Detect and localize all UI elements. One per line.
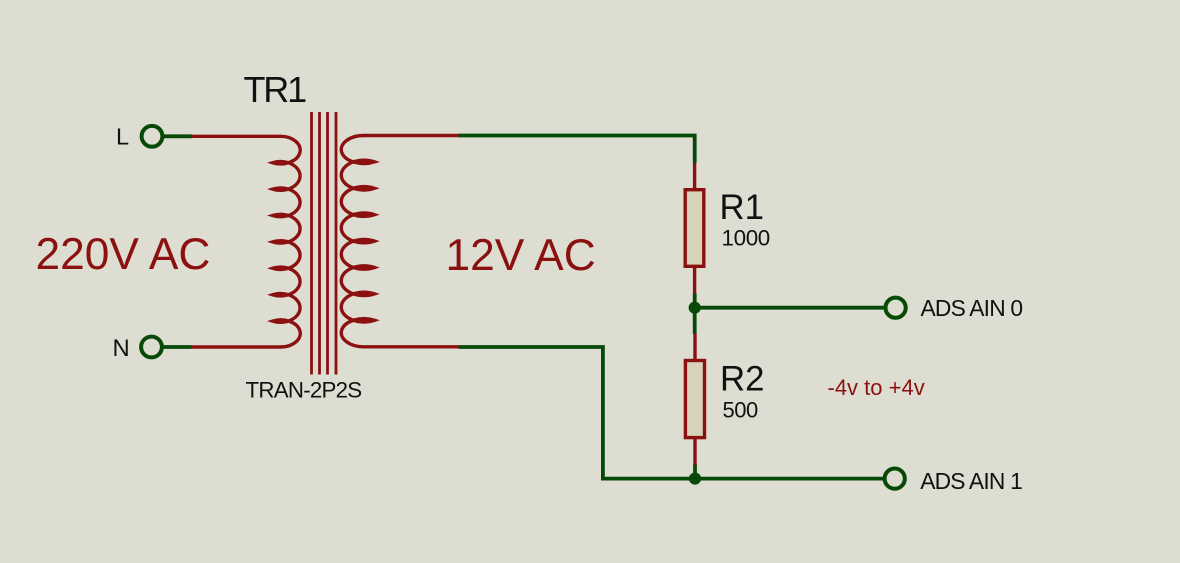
svg-text:500: 500	[723, 398, 758, 423]
svg-text:TRAN-2P2S: TRAN-2P2S	[246, 378, 362, 403]
svg-text:TR1: TR1	[244, 69, 307, 110]
svg-text:R1: R1	[720, 188, 764, 227]
svg-text:220V AC: 220V AC	[36, 230, 211, 279]
svg-text:12V AC: 12V AC	[446, 231, 596, 280]
svg-text:L: L	[116, 123, 129, 149]
svg-text:-4v to +4v: -4v to +4v	[828, 375, 925, 400]
svg-text:R2: R2	[720, 360, 764, 399]
svg-text:1000: 1000	[722, 226, 770, 251]
svg-text:ADS AIN 1: ADS AIN 1	[920, 468, 1022, 494]
svg-text:ADS AIN 0: ADS AIN 0	[921, 295, 1023, 321]
svg-text:N: N	[113, 335, 130, 362]
